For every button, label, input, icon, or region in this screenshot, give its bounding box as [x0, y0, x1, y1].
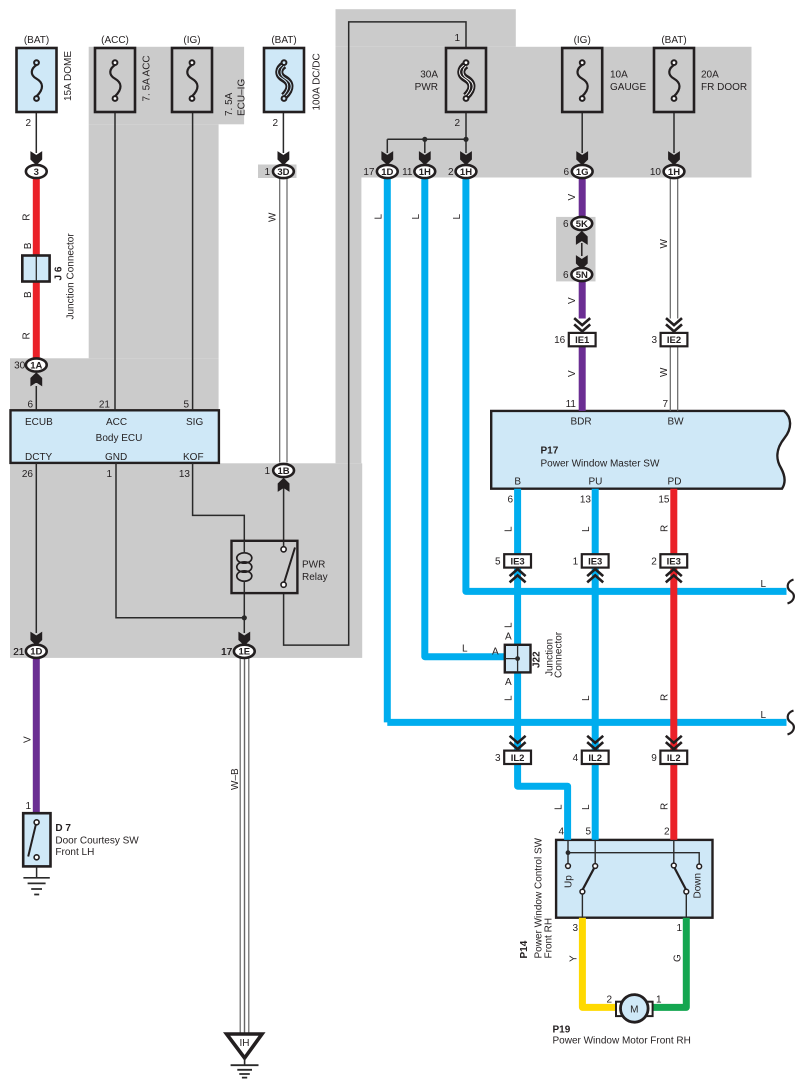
relay switch lever [284, 548, 295, 583]
svg-text:ECUB: ECUB [25, 417, 53, 428]
svg-text:IL2: IL2 [588, 753, 602, 764]
svg-text:L: L [504, 526, 515, 532]
svg-text:V: V [23, 736, 34, 743]
svg-text:6: 6 [507, 495, 513, 506]
wire branch stubs to 1D 1H 1H arrows [387, 139, 466, 153]
svg-text:J 6: J 6 [54, 266, 65, 280]
arrow into connector 1H (2) [461, 152, 472, 164]
svg-text:V: V [567, 194, 578, 201]
svg-text:Y: Y [569, 955, 580, 962]
svg-text:R: R [22, 213, 33, 220]
wire G P14 pin 1 to motor terminal 1 (green) [653, 918, 686, 1008]
svg-text:L: L [462, 644, 468, 655]
relay coil [237, 553, 252, 563]
svg-text:A: A [492, 647, 499, 658]
connector 1E [221, 645, 255, 658]
svg-text:3D: 3D [277, 167, 289, 178]
fuse 20A FR DOOR (BAT) [654, 48, 694, 112]
connector 1H fr door [650, 165, 685, 178]
wire fuse DOME pin 2 to connector 3 [35, 112, 37, 153]
svg-text:21: 21 [99, 400, 111, 411]
svg-text:V: V [567, 370, 578, 377]
svg-text:1: 1 [454, 33, 460, 44]
svg-text:30A: 30A [420, 70, 438, 81]
svg-text:5K: 5K [576, 219, 588, 230]
arrow into connector 1E (17) [239, 633, 250, 645]
svg-text:Front LH: Front LH [55, 847, 94, 858]
svg-text:R: R [660, 525, 671, 532]
svg-text:R: R [660, 694, 671, 701]
svg-text:1: 1 [264, 466, 270, 477]
svg-text:Body ECU: Body ECU [96, 433, 143, 444]
fuse 15A DOME (BAT) [17, 48, 57, 112]
svg-text:4: 4 [573, 753, 579, 764]
wire W fuse DC/DC 3D to 1B (double line) [280, 179, 287, 463]
wire W fuse FR DOOR 1H to IE2 to P17 pin 7 BW (double line) [670, 179, 677, 411]
P14 Up lever [583, 868, 594, 889]
svg-text:B: B [514, 477, 521, 488]
svg-text:L: L [504, 695, 515, 701]
svg-text:1: 1 [25, 801, 31, 812]
svg-text:11: 11 [566, 399, 577, 410]
svg-text:7. 5A ACC: 7. 5A ACC [142, 55, 153, 101]
svg-text:2: 2 [651, 557, 657, 568]
connector 3 [26, 165, 47, 178]
svg-text:1H: 1H [419, 167, 431, 178]
svg-text:BW: BW [667, 417, 684, 428]
svg-text:IE2: IE2 [667, 335, 681, 346]
svg-text:11: 11 [402, 167, 413, 178]
svg-text:Down: Down [693, 873, 704, 899]
svg-text:A: A [505, 677, 512, 688]
svg-text:3: 3 [572, 923, 578, 934]
svg-text:SIG: SIG [186, 417, 203, 428]
Body ECU box [11, 410, 219, 463]
svg-text:6: 6 [563, 167, 569, 178]
svg-text:16: 16 [554, 335, 566, 346]
svg-text:IE3: IE3 [510, 556, 524, 567]
svg-text:100A DC/DC: 100A DC/DC [312, 53, 323, 110]
connector IE3 PD [651, 554, 687, 582]
svg-text:3: 3 [651, 335, 657, 346]
junction dot branch bus at 1H-2 [463, 137, 468, 142]
junction dot branch bus at 1H-11 [422, 137, 427, 142]
wire body ECU KOF pin 13 to relay coil [193, 463, 245, 541]
arrow into connector 1D (21) [31, 633, 42, 645]
svg-text:7. 5A: 7. 5A [224, 92, 235, 116]
svg-text:PWR: PWR [302, 560, 325, 571]
wire L 1D branch down to horizontal L lead (blue) [384, 179, 391, 723]
svg-text:1: 1 [573, 557, 579, 568]
svg-text:P17: P17 [541, 446, 559, 457]
fuse 10A GAUGE (IG) [562, 48, 602, 112]
svg-text:L: L [554, 804, 565, 810]
ground below D7 [23, 866, 49, 894]
fuse 7.5A ACC (ACC) [95, 48, 135, 112]
svg-text:Up: Up [564, 875, 575, 888]
svg-text:IE1: IE1 [575, 335, 590, 346]
wire R/B fuse DOME to J6 to 1A (red) [33, 178, 40, 360]
connector IE3 B [495, 554, 531, 582]
connector 1D bottom [13, 645, 47, 658]
svg-text:M: M [630, 1004, 638, 1015]
svg-text:A: A [505, 632, 512, 643]
svg-text:1: 1 [656, 995, 662, 1006]
svg-text:6: 6 [563, 270, 569, 281]
svg-text:Front RH: Front RH [544, 918, 555, 959]
wire break symbol right end of L lead (upper) [788, 580, 794, 604]
svg-text:IE3: IE3 [667, 556, 681, 567]
connector 5N [563, 268, 592, 281]
svg-text:5N: 5N [576, 270, 588, 281]
svg-text:L: L [374, 214, 385, 220]
svg-text:(IG): (IG) [574, 35, 591, 46]
svg-text:7: 7 [662, 399, 668, 410]
svg-text:P19: P19 [553, 1024, 571, 1035]
svg-text:13: 13 [179, 469, 191, 480]
svg-text:5: 5 [495, 557, 501, 568]
connector 1D top [363, 165, 397, 178]
arrow into connector 1H (11) [419, 152, 430, 164]
svg-text:G: G [673, 954, 684, 962]
arrow into connector 1D (17) [382, 152, 393, 164]
gray shade behind 3D connector [258, 165, 297, 179]
svg-text:GAUGE: GAUGE [610, 82, 646, 93]
svg-text:PD: PD [668, 477, 682, 488]
svg-text:2: 2 [272, 118, 278, 129]
P14 internal bus and contacts [566, 840, 702, 918]
gray shade behind 5K 5N connectors [556, 217, 595, 282]
svg-text:(BAT): (BAT) [661, 35, 686, 46]
svg-text:PU: PU [588, 477, 602, 488]
svg-text:B: B [23, 242, 34, 249]
svg-text:6: 6 [27, 400, 33, 411]
wire fuse GAUGE to 1G [581, 112, 583, 153]
wire V IE1 to P17 pin 11 (violet) [579, 346, 586, 411]
svg-text:1G: 1G [576, 167, 589, 178]
svg-text:L: L [581, 526, 592, 532]
gray shade left fuse block [89, 47, 244, 125]
svg-text:L: L [452, 214, 463, 220]
svg-text:1: 1 [676, 923, 682, 934]
wire V 1D to D7 door courtesy switch (violet) [33, 658, 40, 814]
arrow into connector 1G [577, 152, 588, 164]
P17 Power Window Master SW box (torn right edge) [491, 411, 790, 489]
svg-text:1H: 1H [668, 167, 680, 178]
svg-text:5: 5 [183, 400, 189, 411]
arrow into connector 3 [31, 152, 42, 164]
PWR relay box [232, 541, 298, 593]
svg-text:1B: 1B [278, 466, 290, 477]
wire V 1G to 5K (violet) [579, 179, 586, 218]
svg-text:Power Window Master SW: Power Window Master SW [541, 459, 660, 470]
svg-text:(ACC): (ACC) [101, 35, 129, 46]
fuse 7.5A ECU-IG (IG) [172, 48, 212, 112]
svg-text:2: 2 [25, 118, 31, 129]
svg-text:21: 21 [13, 647, 25, 658]
svg-text:9: 9 [651, 753, 657, 764]
svg-text:DCTY: DCTY [25, 452, 53, 463]
relay switch contacts [281, 547, 286, 552]
svg-text:V: V [567, 297, 578, 304]
svg-text:Power Window Motor Front RH: Power Window Motor Front RH [553, 1036, 691, 1047]
wire fuse ECU-IG to body ECU SIG pin 5 [192, 112, 194, 410]
svg-text:ACC: ACC [106, 417, 127, 428]
wire L P17 pin 6 B through IE3 J22 IL2 to P14 pin 4 (blue) [518, 489, 568, 840]
wire body ECU DCTY pin 26 to 1D [35, 463, 37, 633]
wire fuse PWR pin 1 up over and down to relay contact [284, 22, 466, 645]
svg-text:1H: 1H [460, 167, 472, 178]
svg-text:3: 3 [34, 167, 39, 178]
svg-text:26: 26 [22, 469, 34, 480]
svg-text:D 7: D 7 [55, 823, 71, 834]
svg-text:PWR: PWR [415, 82, 438, 93]
motor P19 power window motor [616, 995, 653, 1023]
connector 1H right [448, 165, 476, 178]
svg-text:L: L [581, 804, 592, 810]
svg-text:1E: 1E [238, 647, 250, 658]
svg-text:2: 2 [454, 118, 460, 129]
svg-text:Relay: Relay [302, 572, 328, 583]
svg-text:Junction Connector: Junction Connector [66, 233, 77, 320]
wire branch bus horizontal [387, 138, 466, 140]
svg-text:J22: J22 [532, 651, 543, 668]
wire L P17 pin 13 PU through IE3 IL2 to P14 pin 5 (blue) [592, 489, 599, 840]
svg-text:ECU–IG: ECU–IG [237, 79, 248, 116]
svg-text:2: 2 [448, 167, 454, 178]
svg-text:L: L [761, 710, 767, 721]
svg-text:5: 5 [585, 827, 591, 838]
svg-text:1D: 1D [381, 167, 393, 178]
svg-text:L: L [411, 214, 422, 220]
svg-text:17: 17 [363, 167, 375, 178]
wire break symbol right end of L lead (lower) [788, 711, 794, 735]
connector IL2 mid [573, 736, 609, 764]
fuse 100A DC/DC (BAT) [264, 48, 304, 112]
gray shade body ECU block [10, 358, 219, 463]
svg-text:FR DOOR: FR DOOR [701, 82, 747, 93]
svg-text:(BAT): (BAT) [24, 35, 49, 46]
connector 1A [14, 358, 47, 371]
svg-text:W: W [268, 212, 279, 222]
svg-text:1A: 1A [30, 360, 42, 371]
svg-text:B: B [23, 291, 34, 298]
arrow into connector 1H (10) [669, 152, 680, 164]
wire relay coil to junction to 1E [243, 593, 245, 633]
fuse 30A PWR [446, 48, 486, 112]
wire body ECU GND pin 1 to 1E junction [116, 463, 244, 618]
connector IE3 PU [573, 554, 609, 582]
svg-text:GND: GND [105, 452, 127, 463]
svg-text:4: 4 [558, 827, 564, 838]
svg-text:20A: 20A [701, 70, 719, 81]
svg-text:IL2: IL2 [511, 753, 525, 764]
wire V 5N to IE1 (violet) [579, 280, 586, 319]
junction connector J6 [22, 256, 49, 282]
svg-text:IL2: IL2 [667, 753, 681, 764]
svg-text:(IG): (IG) [183, 35, 200, 46]
svg-text:L: L [581, 695, 592, 701]
svg-text:10: 10 [650, 167, 662, 178]
svg-text:1: 1 [264, 167, 270, 178]
svg-text:L: L [761, 579, 767, 590]
svg-text:2: 2 [664, 827, 670, 838]
svg-text:1: 1 [106, 469, 112, 480]
P14 Down lever [675, 868, 686, 889]
connector 1B [264, 464, 294, 477]
connector 5K [563, 217, 592, 230]
connector IL2 left [495, 736, 531, 764]
gray shade central block [336, 9, 516, 47]
svg-text:13: 13 [580, 495, 592, 506]
svg-text:P14: P14 [519, 940, 530, 958]
wire 1B to relay switch contact [283, 488, 285, 547]
connector IL2 right [651, 736, 687, 764]
svg-text:15: 15 [658, 495, 670, 506]
svg-text:L: L [504, 622, 515, 628]
svg-text:BDR: BDR [570, 417, 591, 428]
svg-text:17: 17 [221, 647, 233, 658]
connector 1G [563, 165, 592, 178]
wire W-B 1E to ground IH (triple line) [240, 658, 249, 1034]
wire R P17 pin 15 PD through IE3 IL2 to P14 pin 2 (red) [670, 489, 677, 840]
connector IE1 [554, 318, 596, 346]
wire fuse PWR pin 2 to branch bus [465, 112, 467, 139]
switch D7 door courtesy SW front LH [23, 813, 50, 866]
wire fuse ACC to body ECU ACC pin 21 [114, 112, 116, 410]
arrow into connector 3D [278, 152, 289, 164]
svg-text:R: R [22, 332, 33, 339]
svg-text:IE3: IE3 [588, 556, 602, 567]
svg-text:6: 6 [563, 219, 569, 230]
svg-text:KOF: KOF [183, 452, 204, 463]
svg-text:2: 2 [606, 995, 612, 1006]
svg-text:(BAT): (BAT) [271, 35, 296, 46]
connector IE2 [651, 318, 687, 346]
svg-text:10A: 10A [610, 70, 628, 81]
P14 Power Window Control SW box [556, 840, 712, 918]
wire L horizontal lead to right break (blue) [387, 719, 786, 726]
junction connector J22 [505, 645, 531, 673]
svg-text:3: 3 [495, 753, 501, 764]
svg-text:R: R [660, 803, 671, 810]
svg-text:W–B: W–B [230, 768, 241, 790]
wire fuse DC/DC pin 2 to connector 3D [282, 112, 284, 153]
wire L 1H branch to horizontal right break (blue) [466, 179, 787, 592]
svg-text:W: W [659, 367, 670, 377]
svg-text:W: W [659, 239, 670, 249]
wire Y P14 pin 3 to motor terminal 2 (yellow) [582, 918, 615, 1008]
svg-text:30: 30 [14, 361, 26, 372]
svg-text:IH: IH [240, 1038, 250, 1049]
wire fuse FR DOOR to 1H [673, 112, 675, 153]
connector 3D [264, 165, 293, 178]
svg-text:Connector: Connector [554, 631, 565, 678]
svg-text:15A DOME: 15A DOME [63, 51, 74, 101]
ground triangle IH [227, 1034, 262, 1078]
svg-text:Door Courtesy SW: Door Courtesy SW [55, 836, 139, 847]
wire L 1H branch to J22 (blue) [425, 179, 505, 657]
connector 1H mid [402, 165, 435, 178]
svg-text:1D: 1D [30, 647, 42, 658]
wire body ECU ECUB pin 6 to 1A [35, 386, 37, 410]
junction dot GND/relay [242, 615, 247, 620]
